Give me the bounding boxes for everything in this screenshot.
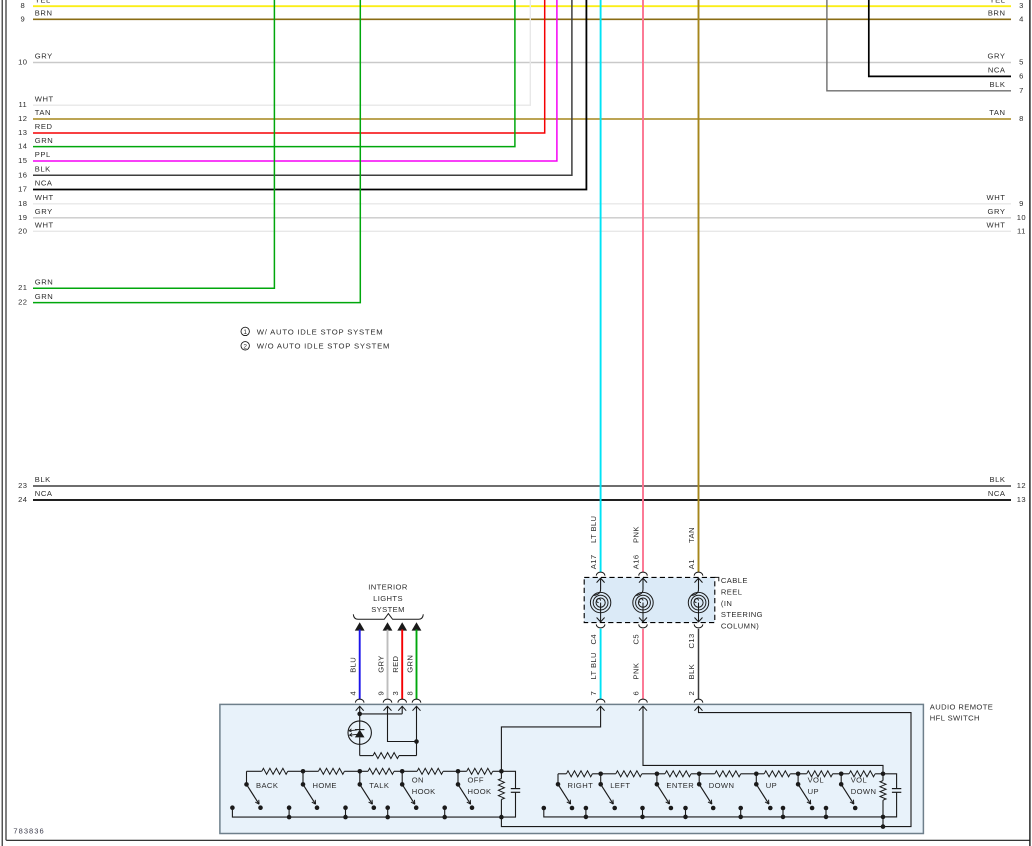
svg-text:4: 4 [349, 691, 358, 696]
wire 22 GRN turns up at x=360.3 [33, 0, 360, 303]
svg-text:11: 11 [1017, 226, 1026, 235]
svg-text:W/O AUTO IDLE STOP SYSTEM: W/O AUTO IDLE STOP SYSTEM [257, 342, 391, 351]
svg-text:A16: A16 [632, 554, 641, 569]
svg-text:GRY: GRY [988, 207, 1006, 216]
bottom contact stub x=685.5 [685, 808, 687, 817]
svg-text:NCA: NCA [35, 489, 53, 498]
svg-text:BLK: BLK [989, 80, 1005, 89]
wire 9 BRN full row [33, 18, 1011, 20]
svg-text:9: 9 [1019, 199, 1024, 208]
svg-text:7: 7 [1019, 86, 1024, 95]
pin8 stem [416, 706, 418, 755]
svg-text:6: 6 [632, 691, 641, 696]
resistor UP4 [756, 773, 764, 775]
svg-text:10: 10 [1017, 213, 1026, 222]
wire RED to interior lights, pin 3 [397, 622, 407, 630]
svg-text:W/ AUTO IDLE STOP SYSTEM: W/ AUTO IDLE STOP SYSTEM [257, 327, 384, 336]
svg-text:GRN: GRN [35, 292, 54, 301]
wire GRY to interior lights, pin 9 [383, 622, 393, 630]
svg-text:CABLE: CABLE [721, 576, 748, 585]
svg-text:16: 16 [18, 170, 27, 179]
resistor RIGHT0 [558, 773, 566, 775]
svg-text:WHT: WHT [35, 221, 54, 230]
svg-text:18: 18 [18, 199, 27, 208]
svg-text:13: 13 [1017, 495, 1026, 504]
svg-text:RED: RED [35, 122, 53, 131]
capacitor right group [883, 774, 897, 789]
svg-text:5: 5 [1019, 58, 1024, 67]
resistor VOL5 [798, 773, 807, 775]
svg-text:LT BLU: LT BLU [589, 516, 598, 543]
LED D1 [348, 721, 371, 744]
wire PNK vertical A16 [642, 0, 644, 572]
svg-text:TALK: TALK [369, 781, 389, 790]
svg-text:LEFT: LEFT [610, 781, 630, 790]
svg-text:BLK: BLK [989, 475, 1005, 484]
svg-text:8: 8 [20, 1, 25, 10]
bottom contact stub x=783.0 [782, 808, 784, 817]
svg-text:7: 7 [589, 691, 598, 696]
svg-text:8: 8 [1019, 114, 1024, 123]
svg-text:VOL: VOL [808, 776, 824, 785]
svg-text:14: 14 [18, 142, 27, 151]
connector entry x=643 [639, 699, 648, 703]
svg-text:21: 21 [18, 283, 27, 292]
svg-text:783836: 783836 [13, 826, 44, 835]
svg-text:2: 2 [243, 343, 247, 350]
svg-text:C13: C13 [687, 633, 696, 648]
svg-text:VOL: VOL [851, 776, 867, 785]
svg-text:PNK: PNK [632, 526, 641, 543]
svg-text:6: 6 [1019, 71, 1024, 80]
svg-text:1: 1 [243, 329, 247, 336]
connector entry x=601 [596, 699, 605, 703]
interior lights bracket [353, 614, 423, 620]
svg-text:(IN: (IN [721, 599, 732, 608]
resistor OFF [458, 770, 467, 772]
cable reel connector + coil at x=601 [596, 572, 605, 576]
switch ON HOOK [401, 771, 403, 784]
switch VOL UP [797, 774, 799, 785]
wire TAN vertical A1 [698, 0, 700, 572]
switch LEFT [600, 774, 602, 785]
svg-text:19: 19 [18, 213, 27, 222]
svg-text:WHT: WHT [987, 193, 1006, 202]
note 1 W/ AUTO IDLE STOP SYSTEM [241, 327, 249, 335]
pin9 stem L to pin8 [388, 706, 417, 741]
resistor DOWN3 [699, 773, 715, 775]
svg-text:C4: C4 [589, 634, 598, 645]
svg-text:AUDIO REMOTE: AUDIO REMOTE [930, 703, 993, 712]
svg-text:ENTER: ENTER [666, 781, 694, 790]
svg-text:A1: A1 [687, 559, 696, 569]
wire 12 TAN full row [33, 118, 1011, 120]
svg-text:LIGHTS: LIGHTS [373, 594, 403, 603]
bottom contact stub x=826.0 [825, 808, 827, 817]
switch DOWN [698, 774, 700, 785]
wire PNK C5 [642, 629, 644, 700]
bottom contact stub x=387.7 [387, 808, 389, 817]
svg-text:UP: UP [766, 781, 777, 790]
switch TALK [359, 771, 361, 784]
bottom contact stub x=585.9 [585, 808, 587, 817]
svg-text:22: 22 [18, 298, 27, 307]
svg-text:GRY: GRY [35, 52, 53, 61]
svg-text:HOME: HOME [313, 781, 337, 790]
pin3 stem [401, 706, 403, 714]
wire 24 NCA full row [33, 499, 1011, 501]
svg-text:BLK: BLK [35, 165, 51, 174]
svg-text:BLK: BLK [35, 475, 51, 484]
page border left outer [1, 0, 3, 846]
svg-text:STEERING: STEERING [721, 610, 763, 619]
svg-text:GRN: GRN [35, 277, 54, 286]
svg-text:GRY: GRY [988, 52, 1006, 61]
wire GRN to interior lights, pin 8 [412, 622, 422, 630]
wire 8 YEL full row [33, 5, 1011, 7]
wire 6 NCA from top [869, 0, 1011, 76]
bottom contact stub x=740.7 [740, 808, 742, 817]
bottom contact stub x=642.5 [642, 808, 644, 817]
resistor ENTER2 [657, 773, 665, 775]
resistor to ground right group [881, 772, 886, 777]
svg-text:RED: RED [391, 655, 400, 672]
svg-text:9: 9 [376, 691, 385, 696]
svg-text:15: 15 [18, 156, 27, 165]
audio remote HFL switch box [220, 704, 924, 833]
svg-text:HOOK: HOOK [468, 787, 492, 796]
wire 18 WHT full row [33, 203, 1011, 205]
wire 7 BLK from top [827, 0, 1011, 91]
svg-text:WHT: WHT [35, 193, 54, 202]
bottom contact stub x=345.5 [345, 808, 347, 817]
svg-text:24: 24 [18, 495, 27, 504]
wire 13 RED turns up at x=544.7 [33, 0, 545, 133]
svg-text:REEL: REEL [721, 588, 742, 597]
svg-text:HOOK: HOOK [412, 787, 436, 796]
svg-text:NCA: NCA [35, 179, 53, 188]
svg-text:TAN: TAN [687, 527, 696, 543]
svg-text:DOWN: DOWN [851, 787, 877, 796]
resistor to ground left group [499, 769, 504, 774]
connector entry x=416 [412, 699, 421, 702]
wire pin2 ground path [501, 706, 911, 826]
svg-text:BRN: BRN [988, 9, 1006, 18]
svg-text:HFL SWITCH: HFL SWITCH [930, 714, 980, 723]
note 2 W/O AUTO IDLE STOP SYSTEM [241, 342, 249, 350]
resistor HOME [303, 770, 318, 772]
connector entry x=698 [694, 699, 703, 702]
cable reel box [584, 577, 715, 622]
wire pin7 to left group [501, 706, 600, 771]
cable reel label leader [715, 577, 719, 581]
svg-text:GRY: GRY [376, 655, 385, 673]
right group bottom bus [544, 808, 897, 817]
resistor TALK [360, 770, 368, 772]
svg-text:YEL: YEL [35, 0, 51, 4]
wire 21 GRN turns up at x=274.4 [33, 0, 274, 288]
resistor LEFT1 [601, 773, 616, 775]
svg-text:BRN: BRN [35, 9, 53, 18]
svg-text:INTERIOR: INTERIOR [368, 583, 408, 592]
svg-text:RIGHT: RIGHT [568, 781, 594, 790]
svg-text:4: 4 [1019, 14, 1024, 23]
switch HOME [302, 771, 304, 784]
bottom contact stub x=289.1 [288, 808, 290, 817]
resistor ON [402, 770, 417, 772]
page border left inner [5, 0, 7, 840]
svg-text:SYSTEM: SYSTEM [371, 605, 405, 614]
connector entry x=388 [383, 699, 392, 702]
svg-text:11: 11 [18, 100, 27, 109]
svg-text:BACK: BACK [256, 781, 278, 790]
svg-text:PPL: PPL [35, 150, 51, 159]
switch VOL DOWN [840, 774, 842, 785]
svg-text:10: 10 [18, 58, 27, 67]
svg-text:TAN: TAN [989, 108, 1005, 117]
svg-text:UP: UP [808, 787, 819, 796]
cable reel connector + coil at x=643 [639, 572, 648, 576]
page border right [1029, 0, 1031, 846]
wire pin4 to pin3 [360, 713, 403, 715]
wire 23 BLK full row [33, 485, 1011, 487]
switch OFF HOOK [457, 771, 459, 784]
svg-text:NCA: NCA [988, 489, 1006, 498]
wire LT BLU vertical A17 [600, 0, 602, 572]
switch BACK [244, 782, 249, 787]
resistor below LED [399, 755, 417, 757]
wire pin6 to right group [643, 706, 883, 774]
wire 20 WHT full row [33, 230, 1011, 232]
svg-text:3: 3 [391, 691, 400, 696]
wire 16 BLK turns up at x=571.9 [33, 0, 572, 175]
wire 11 WHT turns up at x=530.3 [33, 0, 530, 105]
wire 10 GRY full row [33, 62, 1011, 64]
connector entry x=360 [355, 699, 364, 702]
wire 19 GRY full row [33, 217, 1011, 219]
svg-text:C5: C5 [632, 634, 641, 645]
svg-text:COLUMN): COLUMN) [721, 621, 759, 630]
svg-text:ON: ON [412, 776, 424, 785]
bottom contact stub x=444.7 [444, 808, 446, 817]
svg-text:12: 12 [1017, 481, 1026, 490]
resistor VOL6 [841, 773, 849, 775]
svg-text:GRN: GRN [35, 136, 54, 145]
svg-text:TAN: TAN [35, 108, 51, 117]
wire BLK C13 [698, 629, 700, 700]
svg-text:8: 8 [405, 691, 414, 696]
wire 15 PPL turns up at x=556.9 [33, 0, 557, 161]
svg-text:A17: A17 [589, 554, 598, 569]
left group bottom bus [232, 808, 501, 817]
wire BLU to interior lights, pin 4 [355, 622, 365, 630]
svg-text:2: 2 [687, 691, 696, 696]
switch ENTER [656, 774, 658, 785]
svg-text:GRN: GRN [405, 655, 414, 673]
right group top bus with resistors [557, 774, 559, 785]
svg-text:WHT: WHT [35, 94, 54, 103]
wire 17 NCA turns up at x=586.4 [33, 0, 586, 190]
svg-text:LT BLU: LT BLU [589, 652, 598, 679]
switch UP [755, 774, 757, 785]
pin4 stem and junction [359, 706, 361, 721]
wire 14 GRN turns up at x=514.9 [33, 0, 515, 147]
svg-text:PNK: PNK [632, 663, 641, 680]
svg-text:YEL: YEL [989, 0, 1005, 4]
svg-text:12: 12 [18, 114, 27, 123]
connector entry x=402 [398, 699, 407, 702]
switch RIGHT [556, 782, 561, 787]
svg-text:DOWN: DOWN [709, 781, 735, 790]
wire LT BLU C4 [600, 629, 602, 700]
svg-text:3: 3 [1019, 1, 1024, 10]
svg-text:20: 20 [18, 226, 27, 235]
left group top bus with resistors [246, 771, 248, 784]
svg-text:GRY: GRY [35, 207, 53, 216]
ground stub right group [882, 817, 884, 827]
svg-text:OFF: OFF [468, 776, 484, 785]
svg-text:9: 9 [20, 14, 25, 23]
svg-text:13: 13 [18, 128, 27, 137]
cable reel connector + coil at x=698 [694, 572, 703, 575]
svg-text:BLU: BLU [349, 657, 358, 673]
capacitor left group [501, 771, 515, 788]
page border bottom [6, 839, 1030, 841]
svg-text:WHT: WHT [987, 221, 1006, 230]
svg-text:NCA: NCA [988, 66, 1006, 75]
svg-text:BLK: BLK [687, 664, 696, 680]
svg-text:17: 17 [18, 185, 27, 194]
svg-text:23: 23 [18, 481, 27, 490]
resistor BACK [247, 770, 262, 772]
